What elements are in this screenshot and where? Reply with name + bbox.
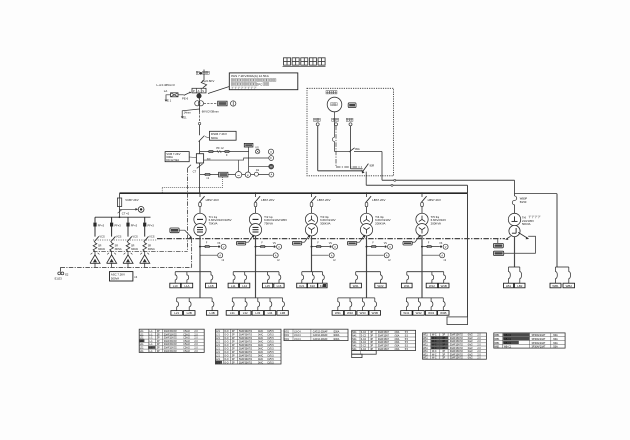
svg-text:3P: 3P xyxy=(442,348,445,350)
svg-text:/30A: /30A xyxy=(395,338,400,341)
svg-text:0A/2: 0A/2 xyxy=(468,347,473,350)
svg-text:WB1: WB1 xyxy=(494,335,500,337)
svg-text:L10: L10 xyxy=(173,284,178,288)
svg-text:O-O: O-O xyxy=(224,359,229,361)
svg-text:CV5.5: CV5.5 xyxy=(267,338,274,340)
svg-text:W11: W11 xyxy=(404,284,410,288)
svg-text:CA312-200AF: CA312-200AF xyxy=(313,334,328,337)
svg-text:3P: 3P xyxy=(442,338,445,340)
svg-text:30AF15AT/2: 30AF15AT/2 xyxy=(164,333,178,336)
svg-text:30AF15AT/2: 30AF15AT/2 xyxy=(450,347,464,350)
svg-text:LBS7.2KV: LBS7.2KV xyxy=(206,198,219,202)
svg-text:W11: W11 xyxy=(423,348,428,350)
svg-text:30AF15AT/2: 30AF15AT/2 xyxy=(450,353,464,356)
svg-text:50AF30AT/3: 50AF30AT/3 xyxy=(239,337,253,340)
svg-text:N41: N41 xyxy=(352,339,357,341)
svg-text:3P: 3P xyxy=(370,336,373,338)
svg-text:C5A/2: C5A/2 xyxy=(183,337,190,340)
svg-text:L32: L32 xyxy=(243,311,248,315)
svg-text:C5A/2: C5A/2 xyxy=(183,333,190,336)
svg-text:3P: 3P xyxy=(232,349,235,351)
svg-text:3P: 3P xyxy=(232,342,235,344)
svg-text:30AF15AT: 30AF15AT xyxy=(378,335,390,338)
svg-text:CV5.5: CV5.5 xyxy=(267,335,274,337)
svg-text:W-C: W-C xyxy=(432,358,437,360)
svg-text:0A/2: 0A/2 xyxy=(468,350,473,353)
svg-text:WB1: WB1 xyxy=(552,284,559,288)
svg-text:PF×3: PF×3 xyxy=(114,223,121,227)
svg-text:W32: W32 xyxy=(347,311,353,315)
svg-text:30AF15AT/2: 30AF15AT/2 xyxy=(164,340,178,343)
svg-text:50AF30AT/3: 50AF30AT/3 xyxy=(239,348,253,351)
svg-text:W1B: W1B xyxy=(441,284,447,288)
svg-text:LB2: LB2 xyxy=(517,284,523,288)
svg-text:V: V xyxy=(270,150,272,154)
svg-text:/200A: /200A xyxy=(333,334,340,337)
svg-text:W-C: W-C xyxy=(432,348,437,350)
svg-text:/30A: /30A xyxy=(395,335,400,338)
svg-text:3-C2: 3-C2 xyxy=(361,332,367,334)
svg-text:0A/2: 0A/2 xyxy=(468,353,473,356)
svg-text:N31: N31 xyxy=(285,331,290,333)
svg-text:/30A: /30A xyxy=(395,348,400,351)
svg-text:VS: VS xyxy=(439,243,443,245)
svg-text:AS: AS xyxy=(256,169,260,172)
svg-text:W11: W11 xyxy=(423,335,428,337)
svg-text:3P: 3P xyxy=(232,335,235,337)
svg-text:PF×3: PF×3 xyxy=(148,223,155,227)
svg-text:C5A/2: C5A/2 xyxy=(183,350,190,353)
svg-text:0A/C: 0A/C xyxy=(258,351,263,354)
svg-text:O-O: O-O xyxy=(224,331,229,333)
svg-text:W-C: W-C xyxy=(432,351,437,353)
svg-text:N41: N41 xyxy=(352,342,357,344)
svg-text:3-C2: 3-C2 xyxy=(361,339,367,341)
svg-text:cos: cos xyxy=(237,175,240,177)
svg-text:3P: 3P xyxy=(370,342,373,344)
svg-text:30AF15AT/2: 30AF15AT/2 xyxy=(164,347,178,350)
svg-text:O-O: O-O xyxy=(224,356,229,358)
svg-text:0A/2: 0A/2 xyxy=(468,334,473,337)
svg-text:VS: VS xyxy=(329,243,333,245)
svg-text:O-O: O-O xyxy=(224,342,229,344)
svg-text:L3B: L3B xyxy=(280,311,285,315)
svg-text:3P: 3P xyxy=(232,345,235,347)
svg-text:O-O: O-O xyxy=(224,345,229,347)
svg-text:3P30AF20AT: 3P30AF20AT xyxy=(532,342,546,345)
svg-text:K22: K22 xyxy=(310,284,316,288)
svg-text:LBS7.2KV: LBS7.2KV xyxy=(428,198,441,202)
svg-text:N31: N31 xyxy=(285,339,290,341)
svg-text:3P: 3P xyxy=(370,339,373,341)
svg-text:50AF30AT/3: 50AF30AT/3 xyxy=(239,358,253,361)
svg-text:3P: 3P xyxy=(157,334,160,336)
svg-text:0A/C: 0A/C xyxy=(258,337,263,340)
svg-text:P: P xyxy=(193,89,195,93)
svg-text:0A/C: 0A/C xyxy=(258,330,263,333)
svg-text:3P: 3P xyxy=(157,331,160,333)
svg-text:W-C: W-C xyxy=(432,338,437,340)
svg-text:PF ×2: PF ×2 xyxy=(216,146,224,150)
svg-text:PF×3: PF×3 xyxy=(131,223,138,227)
svg-text:W21: W21 xyxy=(353,284,359,288)
svg-text:WB1: WB1 xyxy=(494,339,500,341)
svg-text:30AF15AT/2: 30AF15AT/2 xyxy=(450,340,464,343)
svg-text:3P: 3P xyxy=(442,345,445,347)
svg-text:6KVCV38mm: 6KVCV38mm xyxy=(202,110,220,114)
svg-text:/30A: /30A xyxy=(395,341,400,344)
svg-text:CV5.5: CV5.5 xyxy=(267,362,274,364)
svg-text:L33: L33 xyxy=(255,311,260,315)
svg-text:50AF30AT/3: 50AF30AT/3 xyxy=(239,361,253,364)
svg-text:LBS7.2KV: LBS7.2KV xyxy=(372,198,385,202)
svg-text:200KVA: 200KVA xyxy=(375,221,385,225)
svg-text:CV5.5: CV5.5 xyxy=(267,352,274,354)
svg-text:3P: 3P xyxy=(232,362,235,364)
svg-text:W43: W43 xyxy=(428,311,434,315)
svg-text:30AF15AT/2: 30AF15AT/2 xyxy=(450,357,464,360)
svg-text:E2: E2 xyxy=(65,273,69,277)
svg-text:0A/C: 0A/C xyxy=(258,361,263,364)
svg-text:×4: ×4 xyxy=(134,275,138,279)
svg-text:VS: VS xyxy=(255,146,259,150)
svg-text:L16: L16 xyxy=(277,284,282,288)
svg-text:W12: W12 xyxy=(429,284,435,288)
svg-text:3-C2: 3-C2 xyxy=(361,342,367,344)
svg-text:L-A 0.465m=3: L-A 0.465m=3 xyxy=(157,83,175,87)
svg-text:83R: 83R xyxy=(370,164,375,167)
svg-text:WB2: WB2 xyxy=(566,284,573,288)
svg-text:50KVA: 50KVA xyxy=(522,222,531,226)
svg-text:0A/C: 0A/C xyxy=(258,344,263,347)
svg-text:30AF15AT/2: 30AF15AT/2 xyxy=(450,344,464,347)
svg-text:0A/2: 0A/2 xyxy=(468,337,473,340)
svg-text:0A/2: 0A/2 xyxy=(468,340,473,343)
svg-text:3-C2: 3-C2 xyxy=(361,346,367,348)
svg-text:0A/C: 0A/C xyxy=(258,348,263,351)
svg-text:/200A: /200A xyxy=(333,338,340,341)
svg-text:3P30AF20AT: 3P30AF20AT xyxy=(532,346,546,349)
svg-text:L1A: L1A xyxy=(184,284,189,288)
svg-text:L5-C4: L5-C4 xyxy=(294,339,301,341)
svg-text:L1B: L1B xyxy=(208,284,213,288)
svg-text:30AF15AT: 30AF15AT xyxy=(378,331,390,334)
svg-text:3P: 3P xyxy=(442,354,445,356)
svg-text:W31: W31 xyxy=(335,311,341,315)
svg-text:50AF30AT/3: 50AF30AT/3 xyxy=(239,344,253,347)
svg-text:3P: 3P xyxy=(232,356,235,358)
svg-text:3P: 3P xyxy=(157,338,160,340)
svg-text:30AF15AT/2: 30AF15AT/2 xyxy=(450,337,464,340)
svg-text:L12: L12 xyxy=(242,284,247,288)
svg-text:300VA: 300VA xyxy=(131,248,138,251)
svg-text:VS: VS xyxy=(384,243,388,245)
svg-text:3P: 3P xyxy=(442,358,445,360)
svg-text:S: S xyxy=(202,89,204,93)
svg-text:/30A: /30A xyxy=(553,334,558,337)
svg-text:0A/C: 0A/C xyxy=(258,355,263,358)
svg-text:N41: N41 xyxy=(352,346,357,348)
svg-text:3P: 3P xyxy=(232,331,235,333)
svg-text:30AF15AT/2: 30AF15AT/2 xyxy=(450,350,464,353)
svg-text:O-O: O-O xyxy=(224,362,229,364)
svg-text:3P: 3P xyxy=(157,348,160,350)
svg-text:PAS 7.2KV300A(A) 12.5KA: PAS 7.2KV300A(A) 12.5KA xyxy=(231,74,270,78)
svg-text:50AF30AT/3: 50AF30AT/3 xyxy=(239,334,253,337)
svg-text:600A: 600A xyxy=(211,136,218,140)
svg-text:0A/C: 0A/C xyxy=(258,341,263,344)
svg-text:CT =2: CT =2 xyxy=(122,211,130,215)
svg-text:3P: 3P xyxy=(370,346,373,348)
svg-text:VCS: VCS xyxy=(99,235,105,239)
svg-text:N31: N31 xyxy=(285,335,290,337)
svg-text:/200A: /200A xyxy=(333,330,340,333)
svg-text:14mm: 14mm xyxy=(184,110,191,114)
svg-text:3P: 3P xyxy=(232,352,235,354)
svg-text:L2B: L2B xyxy=(187,311,192,315)
svg-text:300VA: 300VA xyxy=(148,248,155,251)
svg-text:WB1: WB1 xyxy=(494,343,500,345)
svg-text:W-C: W-C xyxy=(432,354,437,356)
svg-text:O-O: O-O xyxy=(224,335,229,337)
svg-text:CV5.5: CV5.5 xyxy=(267,342,274,344)
svg-text:CV5.5: CV5.5 xyxy=(267,345,274,347)
svg-text:W41: W41 xyxy=(403,311,409,315)
svg-text:/30A: /30A xyxy=(553,346,558,349)
svg-text:300VA: 300VA xyxy=(115,248,122,251)
svg-text:DC: DC xyxy=(207,157,211,161)
svg-text:W33: W33 xyxy=(360,311,366,315)
svg-text:VS: VS xyxy=(273,243,277,245)
svg-text:CA312-200AF: CA312-200AF xyxy=(313,330,328,333)
svg-text:W-C: W-C xyxy=(432,345,437,347)
svg-text:WB1: WB1 xyxy=(494,347,500,349)
svg-text:30AF15AT: 30AF15AT xyxy=(378,348,390,351)
svg-text:30AF15AT/2: 30AF15AT/2 xyxy=(164,337,178,340)
svg-text:3P: 3P xyxy=(442,341,445,343)
svg-text:30AF15AT: 30AF15AT xyxy=(378,345,390,348)
svg-text:30AF15AT/2: 30AF15AT/2 xyxy=(450,334,464,337)
svg-text:WB-C1: WB-C1 xyxy=(504,347,512,349)
svg-text:0A/C: 0A/C xyxy=(258,334,263,337)
svg-text:W22: W22 xyxy=(378,284,384,288)
svg-text:50AF30AT/3: 50AF30AT/3 xyxy=(239,341,253,344)
svg-text:LBS7.2KV: LBS7.2KV xyxy=(261,198,274,202)
svg-text:3P30AF20AT: 3P30AF20AT xyxy=(532,334,546,337)
svg-text:W-C: W-C xyxy=(432,341,437,343)
svg-text:VCS: VCS xyxy=(149,235,155,239)
svg-text:L5-C4: L5-C4 xyxy=(294,335,301,337)
svg-text:CV5.5: CV5.5 xyxy=(267,356,274,358)
svg-text:PE-6: PE-6 xyxy=(182,97,189,101)
svg-text:W3B: W3B xyxy=(372,311,378,315)
svg-text:75KVA: 75KVA xyxy=(209,221,218,225)
svg-text:O-O: O-O xyxy=(224,352,229,354)
svg-text:C5A/2: C5A/2 xyxy=(183,340,190,343)
svg-text:C5A/2: C5A/2 xyxy=(183,343,190,346)
svg-text:/30A: /30A xyxy=(395,331,400,334)
svg-text:CV5.5: CV5.5 xyxy=(267,359,274,361)
svg-text:VCB7.2KV: VCB7.2KV xyxy=(125,198,139,202)
svg-text:LBS7.2KV: LBS7.2KV xyxy=(317,198,330,202)
svg-text:3P: 3P xyxy=(232,359,235,361)
svg-text:L11: L11 xyxy=(231,284,236,288)
svg-text:30AF15AT/2: 30AF15AT/2 xyxy=(164,350,178,353)
svg-text:3P: 3P xyxy=(157,341,160,343)
svg-text:3P: 3P xyxy=(370,332,373,334)
svg-text:O-O: O-O xyxy=(224,338,229,340)
svg-text:K21: K21 xyxy=(299,284,305,288)
svg-text:C5A/2: C5A/2 xyxy=(183,347,190,350)
svg-text:50AF30AT/3: 50AF30AT/3 xyxy=(239,330,253,333)
svg-text:W11: W11 xyxy=(423,351,428,353)
svg-text:300VA: 300VA xyxy=(98,248,105,251)
svg-text:L31: L31 xyxy=(230,311,235,315)
svg-text:O-O: O-O xyxy=(224,349,229,351)
svg-text:L15: L15 xyxy=(265,284,270,288)
svg-text:E1: E1 xyxy=(183,115,187,119)
svg-text:N41: N41 xyxy=(352,336,357,338)
svg-text:3P: 3P xyxy=(442,351,445,353)
svg-text:E 1: E 1 xyxy=(167,99,172,103)
svg-text:W11: W11 xyxy=(423,358,428,360)
svg-text:L21: L21 xyxy=(174,311,179,315)
svg-text:L5-C4: L5-C4 xyxy=(294,331,301,333)
svg-text:3P: 3P xyxy=(157,344,160,346)
svg-text:0A/2: 0A/2 xyxy=(468,357,473,360)
svg-text:LB1: LB1 xyxy=(506,284,512,288)
svg-text:CV5.5: CV5.5 xyxy=(267,349,274,351)
svg-text:W11: W11 xyxy=(423,345,428,347)
svg-text:LA: LA xyxy=(164,89,168,93)
svg-text:50/30: 50/30 xyxy=(520,200,527,204)
svg-text:WB-C1: WB-C1 xyxy=(504,339,512,341)
svg-text:3P30AF20AT: 3P30AF20AT xyxy=(532,338,546,341)
svg-text:VCS: VCS xyxy=(116,235,122,239)
svg-text:E1,E3: E1,E3 xyxy=(55,277,63,281)
svg-text:W11: W11 xyxy=(423,341,428,343)
svg-text:3P: 3P xyxy=(442,335,445,337)
svg-text:W42: W42 xyxy=(416,311,422,315)
svg-text:30AF15AT: 30AF15AT xyxy=(378,338,390,341)
svg-text:W-C: W-C xyxy=(432,335,437,337)
svg-text:CV5.5: CV5.5 xyxy=(267,331,274,333)
svg-text:ZPC: ZPC xyxy=(257,82,263,86)
svg-text:3P: 3P xyxy=(232,338,235,340)
svg-text:VCS: VCS xyxy=(132,235,138,239)
svg-text:30AF15AT/2: 30AF15AT/2 xyxy=(164,343,178,346)
svg-text:W11: W11 xyxy=(423,354,428,356)
svg-text:DC12.5kA: DC12.5kA xyxy=(166,158,179,162)
svg-text:L4B: L4B xyxy=(210,311,215,315)
svg-text:PF×3: PF×3 xyxy=(98,223,105,227)
svg-text:75KVA: 75KVA xyxy=(264,221,273,225)
svg-text:6.6KV: 6.6KV xyxy=(206,79,214,83)
svg-text:kW: kW xyxy=(270,167,273,169)
svg-text:W4B: W4B xyxy=(440,311,446,315)
svg-text:N41: N41 xyxy=(352,332,357,334)
svg-text:L34: L34 xyxy=(268,311,273,315)
svg-text:VS: VS xyxy=(217,243,221,245)
svg-text:50AF30AT/3: 50AF30AT/3 xyxy=(239,355,253,358)
svg-text:W11: W11 xyxy=(423,338,428,340)
svg-text:3P: 3P xyxy=(157,351,160,353)
svg-text:0A/2: 0A/2 xyxy=(468,344,473,347)
svg-text:50AF30AT/3: 50AF30AT/3 xyxy=(239,351,253,354)
svg-text:CA312-200AF: CA312-200AF xyxy=(313,338,328,341)
svg-text:/30A: /30A xyxy=(395,345,400,348)
svg-text:09G: 09G xyxy=(355,148,360,151)
svg-text:300KVA: 300KVA xyxy=(320,221,330,225)
svg-text:30AF15AT/2: 30AF15AT/2 xyxy=(164,330,178,333)
svg-text:/30A: /30A xyxy=(553,342,558,345)
svg-text:3-C2: 3-C2 xyxy=(361,336,367,338)
svg-text:CT: CT xyxy=(193,169,197,173)
svg-text:WB-C1: WB-C1 xyxy=(504,343,512,345)
svg-text:A: A xyxy=(198,89,200,93)
svg-text:0A/C: 0A/C xyxy=(258,358,263,361)
svg-text:C5A/2: C5A/2 xyxy=(183,330,190,333)
svg-text:/30A: /30A xyxy=(553,338,558,341)
svg-text:200KVA: 200KVA xyxy=(431,221,441,225)
svg-text:500VA: 500VA xyxy=(111,277,119,281)
svg-text:30AF15AT: 30AF15AT xyxy=(378,341,390,344)
svg-text:WB-C1: WB-C1 xyxy=(504,335,512,337)
